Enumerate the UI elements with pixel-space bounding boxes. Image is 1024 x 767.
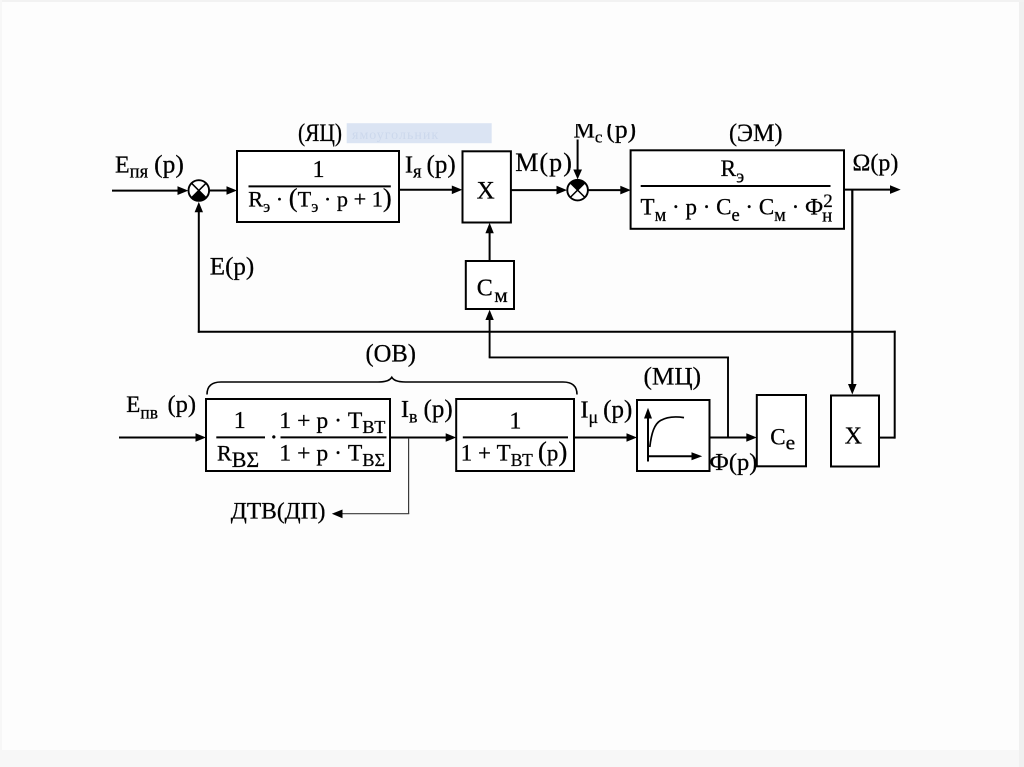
top gray edge: [0, 0, 1024, 2]
wire: branch down to ДТВ(ДП): [332, 438, 409, 518]
svg-text:·: ·: [270, 423, 279, 452]
svg-text:Е(р): Е(р): [210, 253, 254, 280]
svg-text:1: 1: [313, 157, 325, 183]
svg-text:1: 1: [509, 409, 521, 435]
right gray edge: [1019, 0, 1024, 767]
wire: block ЯЦ to multiplier X1: [399, 186, 462, 195]
summing junction S2 (top sector filled): [567, 180, 588, 201]
block ОВ transfer function: [206, 399, 390, 471]
svg-text:ямоугольник: ямоугольник: [352, 128, 439, 143]
block ОВ second fraction bar: [281, 436, 387, 438]
block ЭМ transfer function: [631, 150, 844, 229]
svg-text:М(р): М(р): [515, 148, 573, 177]
block ЯЦ fraction bar: [249, 185, 391, 187]
left gray edge: [0, 0, 2, 767]
wire: input to summing junction S1: [112, 186, 188, 195]
МЦ saturation curve: [650, 417, 684, 447]
МЦ vertical axis: [644, 408, 652, 462]
svg-text:Rэ · (Тэ · р + 1): Rэ · (Тэ · р + 1): [248, 183, 392, 217]
summing junction S1 (bottom sector filled): [189, 180, 210, 201]
wire: С_м up into X1: [485, 223, 493, 261]
svg-text:(ЯЦ): (ЯЦ): [298, 120, 342, 147]
block ВТ fraction bar: [463, 436, 568, 438]
brace over ОВ blocks: [207, 377, 577, 394]
wire: S2 to block ЭМ: [588, 186, 631, 195]
block ОВ first fraction bar: [216, 436, 265, 438]
wire: Ф branch up toward С_м: [485, 310, 729, 438]
wire: block ОВ to block ВТ: [390, 433, 456, 442]
block С_м: [466, 261, 514, 309]
svg-text:1: 1: [234, 408, 246, 434]
svg-text:Ω(р): Ω(р): [853, 150, 899, 176]
block С_е: [757, 395, 806, 466]
block ЭМ fraction bar: [641, 185, 831, 187]
svg-text:Iв(р): Iв(р): [401, 396, 453, 427]
svg-text:(ЭМ): (ЭМ): [729, 120, 783, 147]
wire: ЭМ output: [844, 185, 901, 194]
wire: Е(р) feedback up into S1: [195, 202, 203, 333]
block ЯЦ transfer function: [237, 151, 399, 222]
bottom gray band: [0, 750, 1024, 767]
svg-text:(ОВ): (ОВ): [366, 341, 417, 368]
wire: Е(р) feedback horizontal: [198, 331, 896, 333]
wire: X2 output to feedback corner: [879, 331, 895, 439]
multiplier X1: [463, 151, 511, 222]
svg-text:Ф(р): Ф(р): [710, 449, 758, 476]
svg-text:Iя(р): Iя(р): [405, 152, 456, 183]
wire: М_с(р) down into S2: [573, 140, 582, 180]
wire: block ВТ to block МЦ: [574, 433, 637, 442]
svg-text:ДТВ(ДП): ДТВ(ДП): [231, 498, 326, 524]
svg-text:(МЦ): (МЦ): [644, 364, 702, 391]
wire: X1 to summing junction S2: [511, 186, 567, 195]
svg-text:Iμ(р): Iμ(р): [581, 397, 633, 428]
wire: input to block ОВ: [119, 433, 206, 442]
svg-text:X: X: [845, 424, 862, 450]
wire: S1 to block ЯЦ: [209, 186, 237, 195]
block МЦ (magnetisation curve): [637, 400, 710, 471]
white clip over top of М_с(р): [558, 100, 646, 124]
wire: branch down into multiplier X2: [848, 190, 857, 395]
wire: МЦ to С_е: [710, 433, 757, 442]
block ВТ transfer function: [456, 399, 574, 471]
МЦ horizontal axis: [648, 452, 702, 460]
selection tooltip highlight (faint): [347, 123, 492, 143]
svg-text:X: X: [477, 177, 495, 204]
multiplier X2: [831, 396, 879, 467]
